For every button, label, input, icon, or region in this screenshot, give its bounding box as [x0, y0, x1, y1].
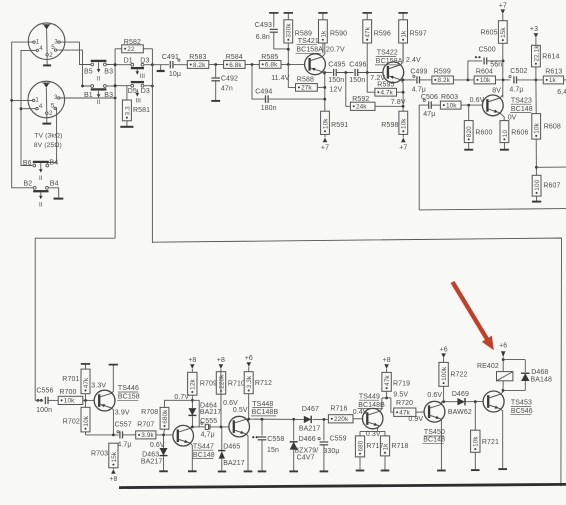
svg-text:BC148B: BC148B [252, 409, 279, 416]
svg-text:10k: 10k [64, 398, 75, 405]
svg-text:TS450: TS450 [424, 429, 445, 436]
wire node A bypass to C555 [192, 400, 199, 427]
svg-text:R581: R581 [133, 107, 150, 114]
diode D469 BAW62 [448, 391, 472, 416]
svg-text:180n: 180n [261, 105, 277, 112]
wire R722 down to line [443, 386, 445, 401]
wire C499 to R599 [420, 79, 432, 81]
voltage label 12V [330, 87, 343, 94]
capacitor C502 4.7u [509, 68, 528, 93]
svg-text:9.5V: 9.5V [393, 392, 408, 399]
svg-text:8V (25Ω): 8V (25Ω) [34, 142, 62, 149]
wire TS423 collector diag [500, 95, 503, 98]
resistor R603 10k [440, 94, 461, 109]
ground below C558 [258, 470, 267, 472]
svg-text:R701: R701 [62, 376, 79, 383]
svg-text:4.7k: 4.7k [381, 90, 394, 97]
supply +6 above R712 [245, 355, 253, 372]
wire node down to R721 [474, 402, 476, 431]
resistor R712 3.3k [244, 372, 272, 394]
svg-text:680k: 680k [162, 409, 169, 424]
wire TS422 collector to C499 [402, 79, 416, 82]
svg-text:C4V7: C4V7 [297, 454, 315, 461]
svg-text:D467: D467 [302, 406, 319, 413]
svg-text:3.3V: 3.3V [91, 382, 106, 389]
supply +7 below R591 [321, 134, 329, 151]
resistor R598 10k [381, 111, 407, 134]
svg-text:R607: R607 [543, 183, 560, 190]
wire R720 to TS450 base [416, 411, 424, 413]
svg-text:B3: B3 [104, 92, 113, 99]
svg-text:47k: 47k [384, 375, 391, 386]
voltage label 3.3V [91, 382, 106, 389]
transistor TS448 [229, 416, 250, 437]
wire C496 to TS422 base [358, 71, 383, 74]
svg-text:150n: 150n [328, 77, 344, 84]
capacitor C556 100n [35, 387, 53, 414]
svg-text:B6: B6 [23, 160, 32, 167]
label C559 330u [323, 435, 346, 455]
svg-text:TS422: TS422 [377, 50, 398, 57]
svg-text:0.9V: 0.9V [408, 416, 423, 423]
capacitor C492 47n [211, 65, 238, 100]
svg-text:1k: 1k [549, 77, 557, 84]
svg-text:C502: C502 [510, 68, 527, 75]
svg-text:R598: R598 [381, 122, 398, 129]
wire main vertical (signal to lower frame) [151, 49, 153, 243]
resistor R591 10k [321, 111, 349, 134]
wire TS423 emitter to R606 [500, 113, 504, 121]
svg-text:RE402: RE402 [477, 363, 499, 370]
svg-text:4: 4 [39, 103, 43, 110]
svg-text:III: III [140, 73, 146, 80]
wire D467 to R716, node C559 [313, 418, 329, 421]
svg-text:III: III [135, 98, 141, 105]
svg-text:8.2k: 8.2k [438, 77, 451, 84]
wire selector bus down-left to lower section input [35, 238, 115, 400]
wire TS450 collector up [441, 402, 443, 405]
svg-text:0.4V: 0.4V [353, 409, 368, 416]
svg-text:R599: R599 [434, 69, 451, 76]
supply +8 above R710 and wire to base [217, 357, 225, 427]
svg-text:R600: R600 [475, 129, 492, 136]
wire R604 to C502 [496, 79, 511, 82]
wire B3 top to bus [107, 63, 117, 66]
svg-text:BC148B: BC148B [358, 402, 385, 409]
DIN connector socket B (pins 1-5) [28, 81, 65, 118]
wire D469 to TS453 base, node R721 [466, 400, 484, 403]
voltage label 0.6V [470, 97, 485, 104]
svg-text:+8: +8 [188, 357, 196, 364]
svg-text:0.5V: 0.5V [233, 407, 248, 414]
svg-text:BC148: BC148 [511, 106, 533, 113]
svg-text:10μ: 10μ [169, 71, 181, 78]
svg-text:+7: +7 [399, 145, 407, 152]
resistor R585 6.8k [259, 54, 281, 69]
ground below D465 [218, 471, 226, 473]
svg-text:2: 2 [49, 52, 53, 59]
supply +6 above R722 [440, 347, 448, 363]
wire TS422 collector down to R598 [400, 80, 404, 112]
wire TS447 collector diag [190, 426, 192, 428]
svg-text:15k: 15k [500, 27, 507, 38]
resistor R590 1k [318, 13, 347, 53]
svg-text:R700: R700 [59, 389, 76, 396]
ground below D463 [159, 470, 168, 472]
svg-text:TS423: TS423 [511, 97, 532, 104]
voltage label 6,4 [557, 89, 566, 96]
svg-text:R721: R721 [482, 439, 499, 446]
svg-text:TV (3kΩ): TV (3kΩ) [34, 133, 62, 140]
resistor R720 47k [391, 398, 416, 417]
svg-text:+6: +6 [245, 355, 253, 362]
svg-text:0.6V: 0.6V [150, 442, 165, 449]
svg-text:B4: B4 [50, 159, 59, 166]
svg-text:47μ: 47μ [423, 111, 435, 118]
svg-text:8.2k: 8.2k [193, 62, 206, 69]
wire pin3-A to contact B5 [60, 42, 90, 64]
wire C556 to R700 [48, 399, 58, 401]
wire C495-C496 node [336, 71, 353, 74]
svg-text:5: 5 [51, 44, 55, 51]
wire node A to R708 [165, 400, 193, 407]
svg-text:R603: R603 [441, 94, 458, 101]
svg-text:3.3k: 3.3k [246, 375, 253, 388]
svg-text:12k: 12k [190, 378, 197, 389]
ground below connector A [43, 56, 51, 65]
svg-text:7.8V: 7.8V [391, 99, 406, 106]
svg-text:R608: R608 [544, 124, 561, 131]
svg-text:BC546: BC546 [511, 408, 533, 415]
svg-text:5: 5 [51, 103, 55, 110]
svg-text:1k: 1k [401, 30, 408, 38]
wire pin4-B join [21, 108, 36, 110]
page border bottom line [119, 484, 566, 487]
DIN connector socket A (pins 1-5) [28, 23, 65, 60]
svg-text:R707: R707 [137, 422, 154, 429]
svg-text:B3: B3 [104, 69, 113, 76]
switch contact B5-B3 [84, 61, 113, 76]
resistor R606 10 [500, 121, 528, 143]
svg-text:+7: +7 [499, 3, 507, 10]
resistor R597 1k [398, 13, 426, 61]
svg-text:100n: 100n [36, 407, 52, 414]
svg-text:TS446: TS446 [118, 385, 139, 392]
wire collector to C495 [325, 72, 333, 74]
capacitor C559 330u [318, 419, 328, 470]
wire R702 to line [85, 432, 87, 435]
svg-text:D3: D3 [140, 57, 149, 64]
capacitor C491 10u [162, 54, 181, 78]
svg-text:0.6V: 0.6V [223, 400, 238, 407]
wire TS448 emitter down [246, 434, 248, 471]
svg-text:BC158A: BC158A [296, 47, 323, 54]
resistor R708 680k [141, 407, 169, 429]
transistor TS449 [363, 408, 383, 428]
transistor TS450 [424, 401, 445, 422]
svg-text:BA217: BA217 [223, 460, 245, 467]
diode D465 [218, 427, 225, 471]
svg-text:330μ: 330μ [323, 448, 339, 455]
svg-text:330k: 330k [286, 23, 293, 38]
svg-text:BC148: BC148 [193, 452, 215, 459]
label D464 BA217 [200, 402, 222, 416]
svg-text:6.8k: 6.8k [265, 62, 278, 69]
wire TS449 collector up [380, 398, 382, 411]
svg-text:8V: 8V [492, 87, 501, 94]
svg-text:0.6V: 0.6V [427, 392, 442, 399]
label D463 BA217 [141, 451, 163, 465]
voltage label 0V [508, 115, 517, 122]
svg-text:R720: R720 [396, 400, 413, 407]
svg-text:+8: +8 [217, 357, 225, 364]
resistor R613 1k [543, 69, 566, 85]
wire R719 to collector node [386, 391, 388, 398]
svg-text:+7: +7 [321, 145, 329, 152]
svg-text:R703: R703 [91, 451, 108, 458]
svg-text:3: 3 [54, 38, 58, 45]
svg-text:4.7μ: 4.7μ [117, 442, 131, 449]
svg-text:C496: C496 [349, 61, 366, 68]
actuator III for D5-D3 [135, 89, 141, 104]
bus wire left (selector output down to lower section) [114, 49, 116, 238]
resistor R581 3.3 [122, 86, 150, 121]
lower section frame (top + right edge) [152, 238, 561, 486]
svg-text:II: II [97, 75, 101, 82]
ground below TS448 emitter [244, 470, 253, 472]
label TS449 BC148B [358, 393, 386, 408]
actuator II for B5-B3 [97, 62, 101, 82]
svg-text:1k: 1k [382, 443, 389, 451]
svg-text:0.3V: 0.3V [366, 431, 381, 438]
chassis ground tap at input line [157, 65, 165, 71]
ground below TS450 emitter [437, 470, 446, 472]
svg-text:R614: R614 [542, 54, 559, 61]
svg-text:+8: +8 [109, 476, 117, 483]
voltage label 3.9V [115, 410, 130, 417]
svg-text:R710: R710 [228, 380, 245, 387]
resistor R721 10k [471, 430, 499, 452]
svg-text:10k: 10k [446, 102, 457, 109]
ground below D466 [289, 470, 298, 472]
svg-text:10k: 10k [480, 77, 491, 84]
svg-text:47n: 47n [221, 85, 233, 92]
svg-text:22: 22 [127, 46, 135, 53]
svg-text:C499: C499 [410, 69, 427, 76]
resistor R719 47k [382, 372, 410, 391]
wire TS446 emitter to rail bar [109, 365, 118, 394]
svg-text:R585: R585 [261, 54, 278, 61]
wire pin5-B down to contact B4 [48, 108, 57, 163]
svg-text:D1: D1 [124, 57, 133, 64]
supply +7 above R605 [499, 3, 507, 21]
wire R708 to base line [164, 429, 165, 435]
label TS453 BC546 [510, 400, 533, 415]
svg-text:+6: +6 [499, 343, 507, 350]
svg-text:C556: C556 [36, 387, 53, 394]
svg-text:BA217: BA217 [299, 425, 321, 432]
svg-text:C557: C557 [115, 422, 132, 429]
svg-text:BA217: BA217 [141, 458, 163, 465]
resistor R584 6.8k [224, 54, 246, 69]
wire emitter node to R717/R718 [360, 430, 385, 432]
svg-text:C495: C495 [328, 61, 345, 68]
wire TS421 emitter to R590 [322, 43, 325, 57]
svg-text:C494: C494 [255, 89, 272, 96]
resistor R599 8.2k [432, 69, 454, 85]
svg-text:12V: 12V [330, 87, 343, 94]
voltage label 11.4V [271, 75, 290, 82]
wire R584 to R585, node C494 [245, 63, 259, 66]
supply +8 below R703 [109, 468, 117, 483]
capacitor C495 150n [328, 61, 345, 84]
svg-text:24k: 24k [356, 104, 367, 111]
resistor R608 10k [532, 80, 561, 139]
wire bus to D5 [114, 84, 131, 87]
ground below C559 [320, 470, 329, 472]
zener diode D466 [290, 419, 298, 470]
wire R712 to collector node [247, 394, 250, 421]
svg-text:R709: R709 [200, 380, 217, 387]
svg-text:R604: R604 [476, 69, 493, 76]
wire D3 lower to main vertical [144, 85, 154, 88]
resistor R595 4.7k [367, 73, 403, 97]
voltage label 0.7V [174, 394, 189, 401]
svg-text:+8: +8 [383, 357, 391, 364]
svg-text:20.7V: 20.7V [326, 47, 345, 54]
wire TS447 emitter down [190, 443, 192, 470]
ground below TS453 emitter [498, 468, 507, 470]
capacitor C500 56n [475, 46, 505, 68]
svg-text:10: 10 [502, 130, 509, 138]
svg-text:10k: 10k [473, 436, 480, 447]
svg-text:C558: C558 [267, 436, 284, 443]
svg-text:R613: R613 [545, 69, 562, 76]
voltage label 0.6V (TS447 base) [150, 442, 165, 449]
svg-text:15n: 15n [267, 447, 279, 454]
wire TS453 emitter down [501, 409, 503, 468]
svg-text:D465: D465 [223, 444, 240, 451]
ground below R717 [356, 457, 365, 471]
capacitor C506 47u [421, 94, 438, 118]
svg-text:II: II [97, 99, 101, 106]
svg-text:R595: R595 [377, 82, 394, 89]
svg-text:II: II [39, 175, 43, 182]
svg-text:BZX79/: BZX79/ [294, 447, 318, 454]
switch contact B2-B4 [24, 181, 59, 192]
diode D463 [160, 435, 168, 471]
svg-text:D468: D468 [531, 369, 548, 376]
wire pin4-A down to contact B6 [20, 50, 36, 165]
voltage label 0.5V (TS448 base) [233, 407, 248, 414]
svg-text:R606: R606 [511, 129, 528, 136]
svg-text:R588: R588 [297, 77, 314, 84]
svg-text:B1: B1 [84, 92, 93, 99]
svg-text:C500: C500 [479, 46, 496, 53]
wire TS421 collector down to R591 [322, 72, 326, 112]
wire C506 to feedback line [419, 105, 429, 210]
label C558 15n [267, 436, 284, 454]
svg-text:10k: 10k [534, 122, 541, 133]
actuator II for B6-B4 [39, 163, 43, 182]
resistor R717 680 [355, 431, 383, 457]
svg-text:47k: 47k [83, 377, 90, 388]
svg-text:2.4V: 2.4V [406, 57, 421, 64]
svg-text:R717: R717 [366, 443, 383, 450]
wire pin3-B to output bus [60, 97, 116, 100]
resistor R710 220k [216, 372, 245, 395]
wire pin1-A / pin1-B down to contact B2 [10, 42, 33, 188]
label TS422 BC158A 2.4V [375, 50, 421, 66]
wire C555 to TS448 base, node R710 [210, 426, 228, 429]
supply +3 above R614 [530, 26, 538, 45]
wire pin1-B join [12, 99, 33, 101]
resistor R700 10k [58, 389, 83, 405]
wire C506 to R603 [431, 104, 440, 106]
switch contact D1-D3 [124, 57, 150, 68]
svg-text:56n: 56n [490, 62, 502, 69]
wire TS453 collector up [501, 390, 503, 394]
resistor R604 10k [474, 69, 495, 85]
svg-text:R589: R589 [295, 30, 312, 37]
svg-text:4.7μ: 4.7μ [509, 86, 523, 93]
svg-text:TS447: TS447 [193, 443, 214, 450]
svg-text:D5: D5 [128, 88, 137, 95]
voltage label 7.2V [370, 75, 385, 82]
supply +8 above R719 [383, 357, 391, 372]
switch contact B6-B4 [23, 159, 58, 167]
transistor TS423 [482, 95, 503, 116]
transistor TS422 [383, 62, 404, 83]
svg-text:6,4: 6,4 [557, 89, 566, 96]
transistor TS446 [94, 390, 115, 411]
capacitor C493 6.8n [255, 13, 288, 49]
wire R583 to R584, node C492 [209, 63, 224, 66]
ground below connector B [42, 115, 51, 124]
svg-text:C491: C491 [162, 54, 179, 61]
svg-text:4.7μ: 4.7μ [412, 86, 426, 93]
resistor R614 22.1k [532, 45, 560, 80]
svg-text:B5: B5 [84, 69, 93, 76]
wire TS422 emitter to R597 [400, 43, 403, 65]
voltage label 0.9V [408, 416, 423, 423]
svg-text:220k: 220k [334, 416, 349, 423]
svg-text:C492: C492 [221, 75, 238, 82]
svg-text:10k: 10k [83, 415, 90, 426]
supply +8 above R709 [188, 357, 196, 372]
wire R603 to TS423 base, node R600 [461, 104, 482, 107]
svg-text:D469: D469 [452, 391, 469, 398]
feedback line to right edge [419, 209, 566, 210]
svg-text:27k: 27k [301, 85, 312, 92]
resistor R703 15k [91, 443, 118, 468]
resistor R716 220k [328, 405, 353, 423]
switch contact B1-B3 [84, 85, 113, 99]
svg-text:820: 820 [466, 126, 473, 137]
svg-text:TS421: TS421 [298, 38, 319, 45]
transistor TS453 [483, 391, 504, 412]
resistor R701 47k [62, 364, 90, 401]
svg-text:R583: R583 [189, 54, 206, 61]
capacitor C496 150n [349, 61, 366, 84]
svg-text:BC158: BC158 [118, 394, 140, 401]
voltage label 0.3V [366, 431, 381, 438]
wire R707 to TS447 base, node R708/D463 [156, 434, 173, 437]
svg-text:10k: 10k [322, 118, 329, 129]
wire C557 to R707 [123, 434, 136, 436]
label TS450 BC148 [423, 429, 446, 443]
svg-text:11.4V: 11.4V [271, 75, 290, 82]
